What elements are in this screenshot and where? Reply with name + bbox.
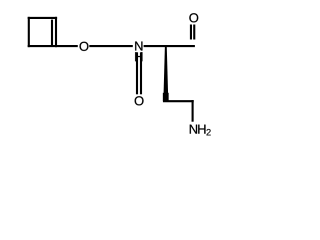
C=O double bond below N (left line) bbox=[136, 52, 138, 94]
aldehyde C=O double bond (right line) bbox=[193, 25, 195, 40]
atom label N of NH2 (amine) bbox=[190, 125, 197, 134]
aldehyde C=O double bond (left line) bbox=[190, 25, 192, 40]
wire: bond from wedge bottom to chain corner bbox=[163, 100, 194, 102]
wire: bond from chain corner down to NH2 bbox=[192, 100, 194, 122]
atom label H of NH2 (amine) bbox=[198, 125, 205, 134]
atom label subscript 2 of NH2 (amine) bbox=[207, 129, 211, 135]
atom label N (amide nitrogen) bbox=[135, 42, 142, 51]
wire: bond from ester O to N bbox=[89, 45, 133, 47]
atom label O (ester oxygen) bbox=[80, 42, 89, 51]
atom label H (on nitrogen) bbox=[135, 52, 142, 61]
wire: ring bottom edge extended as bond to ester O bbox=[28, 45, 78, 47]
wire: bond from N through stereocenter to aldehyde C bbox=[144, 45, 195, 47]
cyclobutene ring left edge bbox=[28, 17, 30, 47]
cyclobutene C=C double bond inner line bbox=[51, 20, 53, 47]
cyclobutene ring top edge bbox=[28, 17, 57, 19]
atom label O (carbonyl oxygen below N) bbox=[135, 96, 144, 105]
cyclobutene ring right edge (outer line of C=C double bond) bbox=[55, 17, 57, 47]
stereo wedge bond (bold, down from stereocenter) bbox=[163, 46, 168, 98]
stereo wedge foot bbox=[163, 93, 169, 101]
C=O double bond below N (right line) bbox=[140, 52, 142, 94]
atom label O (aldehyde oxygen, top right) bbox=[189, 13, 198, 22]
